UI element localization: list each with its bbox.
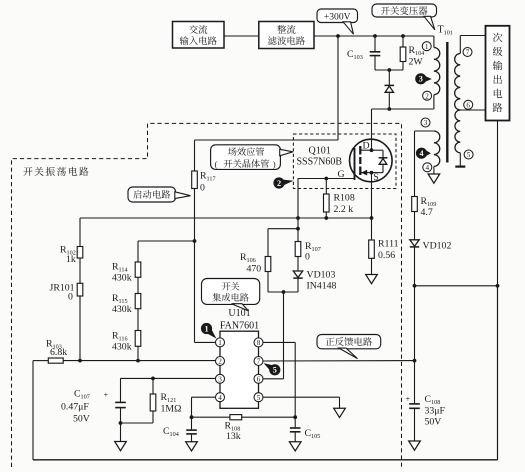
svg-text:5: 5 <box>467 151 471 159</box>
wire drain rail <box>372 108 434 110</box>
resistor R103 <box>48 358 63 363</box>
svg-text:R108: R108 <box>334 193 355 204</box>
AC input circuit block 交流输入电路 <box>173 22 225 49</box>
wire junction down to pin6 <box>283 292 285 379</box>
transformer T101 secondary winding 6-5 <box>455 110 460 153</box>
svg-text:0: 0 <box>200 183 205 194</box>
marker 2 black <box>283 180 293 186</box>
wire feedback bus left <box>33 360 48 362</box>
capacitor C107 <box>120 378 122 401</box>
svg-text:2: 2 <box>277 179 281 188</box>
wire R114-R115 <box>137 277 139 293</box>
wire vcc to output return <box>415 285 498 287</box>
resistor R109 <box>412 197 418 212</box>
node snubber diode bottom <box>387 107 391 111</box>
resistor R108 2.2k <box>325 179 327 195</box>
svg-text:430k: 430k <box>112 342 132 353</box>
callout 启动电路 <box>128 187 176 202</box>
resistor R121 <box>152 378 154 394</box>
svg-text:3: 3 <box>419 75 423 84</box>
svg-text:VD103: VD103 <box>307 270 336 281</box>
resistor R104 <box>402 36 404 47</box>
node R106 tap <box>296 227 300 231</box>
svg-text:4: 4 <box>419 149 423 158</box>
svg-text:1: 1 <box>218 339 222 347</box>
wire JR101 to feedback bus <box>79 296 81 361</box>
svg-text:2: 2 <box>218 358 222 366</box>
svg-text:0.56: 0.56 <box>378 250 395 261</box>
pin circle 4 <box>423 163 432 172</box>
svg-text:0.47μF: 0.47μF <box>61 402 89 413</box>
resistor R102 <box>77 247 83 259</box>
pin 1 of U101 <box>216 338 225 347</box>
svg-text:7: 7 <box>466 49 470 57</box>
svg-text:33μF: 33μF <box>425 406 446 417</box>
svg-text:4: 4 <box>218 394 222 402</box>
wire +300V rail <box>314 35 434 37</box>
pin circle 6 <box>464 100 473 109</box>
node C103 rail <box>373 34 377 38</box>
wire R106 tap <box>268 228 298 230</box>
resistor R106 <box>265 257 271 272</box>
svg-text:0: 0 <box>305 252 310 263</box>
rectifier filter block 整流滤波电路 <box>259 22 314 49</box>
node feedback right <box>413 359 417 363</box>
ground below R111 <box>371 258 373 274</box>
ground bar below pin5 <box>455 166 465 168</box>
wire VD102 node down to feedback <box>414 286 416 361</box>
resistor R111 <box>369 240 375 258</box>
node gate R108 <box>324 177 328 181</box>
node JR101/feedback <box>78 359 82 363</box>
svg-text:): ) <box>273 159 276 169</box>
svg-text:+: + <box>104 390 109 400</box>
wire pin4 left <box>192 396 216 398</box>
wire bottom ground bus <box>33 459 498 461</box>
pin 3 of U101 <box>216 374 225 383</box>
pin circle 3 <box>421 118 430 127</box>
wire pin6 right <box>263 378 284 380</box>
callout 开关变压器 <box>372 4 437 17</box>
capacitor C105 <box>294 417 296 427</box>
node junction to pin6 <box>282 290 286 294</box>
ground below C105 <box>289 442 301 451</box>
ground below C108 <box>409 441 421 450</box>
svg-text:1: 1 <box>425 43 429 51</box>
svg-text:8: 8 <box>257 339 261 347</box>
svg-text:6: 6 <box>257 375 261 383</box>
svg-text:1MΩ: 1MΩ <box>161 404 182 415</box>
node source bus <box>370 216 374 220</box>
callout 开关集成电路 <box>202 279 260 305</box>
svg-text:5: 5 <box>257 394 261 402</box>
capacitor C103 <box>374 36 376 51</box>
marker 3 black <box>425 76 432 82</box>
pin circle 1 <box>422 42 431 51</box>
wire AC block to rectifier block <box>224 35 259 37</box>
wire VD103/R106 junction <box>268 291 298 293</box>
mosfet Q101 gate bar <box>354 148 356 180</box>
pin circle 5 <box>464 150 473 159</box>
wire source bus <box>80 217 372 219</box>
mosfet Q101 channel segments <box>359 146 361 155</box>
svg-text:430k: 430k <box>112 273 132 284</box>
transformer T101 primary winding <box>434 48 440 95</box>
IC U101 body <box>220 331 259 408</box>
wire R106 down <box>267 272 269 293</box>
wire VD102 down <box>414 247 416 286</box>
pin 6 of U101 <box>254 374 263 383</box>
wire bus to output riser <box>497 286 499 460</box>
resistor R115 <box>135 294 141 309</box>
svg-text:4: 4 <box>426 164 430 172</box>
wire R115-R116 <box>137 309 139 331</box>
pin circle 7 <box>463 48 472 57</box>
mosfet Q101 body circle <box>350 139 393 182</box>
node bottom left <box>190 415 194 419</box>
transformer T101 aux winding 3-4 <box>434 131 440 166</box>
resistor JR101 <box>77 283 83 296</box>
transformer T101 secondary lead pin7 <box>460 35 485 37</box>
svg-text:1k: 1k <box>66 254 76 265</box>
svg-text:50V: 50V <box>73 414 90 425</box>
wire pin6 tap <box>460 109 485 111</box>
ground below C107 <box>115 442 127 451</box>
svg-text:2: 2 <box>425 92 429 100</box>
capacitor C108 <box>414 361 416 404</box>
svg-text:S: S <box>373 172 378 183</box>
diode snubber VD <box>388 70 390 85</box>
diode VD103 <box>293 271 302 277</box>
wire R116 to feedback bus <box>137 346 139 360</box>
svg-text:7: 7 <box>257 358 261 366</box>
svg-text:IN4148: IN4148 <box>307 281 337 292</box>
transformer T101 primary lead pin2 <box>433 95 435 109</box>
resistor R108 13k <box>230 415 242 420</box>
wire pin8 right <box>263 341 295 343</box>
node output return <box>496 284 500 288</box>
wire pin3 down <box>414 131 416 197</box>
wire R121 bottom <box>152 411 154 423</box>
pin 8 of U101 <box>254 338 263 347</box>
wire aux winding to ground <box>433 166 435 174</box>
wire output return down <box>497 121 499 460</box>
svg-text:1: 1 <box>204 324 208 333</box>
wire R109 to VD102 <box>414 212 416 240</box>
wire VD103 down <box>297 278 299 292</box>
svg-text:SSS7N60B: SSS7N60B <box>297 157 343 168</box>
mosfet Q101 source lead with arrow <box>360 172 371 174</box>
svg-text:5: 5 <box>273 366 277 375</box>
svg-text:+: + <box>406 394 411 404</box>
wire bottom RC <box>192 416 230 418</box>
svg-text:430k: 430k <box>112 304 132 315</box>
transformer T101 secondary winding 7-6 <box>455 54 461 111</box>
wire pin3 left <box>121 377 216 379</box>
svg-text:6: 6 <box>466 101 470 109</box>
svg-text:4.7: 4.7 <box>421 207 433 218</box>
secondary output circuit block 次级输出电路 <box>486 26 510 121</box>
marker 1 black <box>208 330 217 339</box>
svg-text:470: 470 <box>247 264 262 275</box>
wire bus corner to R102 <box>79 218 81 247</box>
wire startup from +300V rail <box>337 36 339 140</box>
svg-text:13k: 13k <box>226 431 241 442</box>
wire pin5 right <box>263 396 340 398</box>
pin circle 2 <box>423 91 432 100</box>
transformer core <box>446 42 448 163</box>
svg-text:0: 0 <box>68 292 73 303</box>
callout +300V <box>317 9 358 23</box>
diode VD102 <box>410 240 419 246</box>
marker 4 black <box>426 151 431 157</box>
svg-text:FAN7601: FAN7601 <box>220 321 259 332</box>
node R116/feedback <box>136 359 140 363</box>
callout 场效应管(开关晶体管) <box>211 145 281 170</box>
resistor R107 <box>295 242 301 257</box>
node gate branch bus <box>296 216 300 220</box>
svg-text:R111: R111 <box>378 239 399 250</box>
wire pin3 tap <box>415 130 434 132</box>
wire pin5 to ground bar <box>459 153 461 166</box>
transformer T101 primary lead pin1 <box>433 36 435 48</box>
node R104 rail <box>401 34 405 38</box>
svg-text:D: D <box>363 141 370 152</box>
node snubber diode top <box>387 68 391 72</box>
resistor R116 <box>135 331 141 347</box>
node VD102 output junction <box>413 284 417 288</box>
ground below C104 <box>186 442 198 451</box>
wire R107 to VD103 <box>297 257 299 271</box>
svg-text:6.8k: 6.8k <box>50 347 67 358</box>
wire feedback left riser <box>32 361 34 460</box>
node C107 R121 <box>119 421 123 425</box>
svg-text:2W: 2W <box>409 57 424 68</box>
capacitor C104 <box>191 417 193 429</box>
mosfet Q101 body diode <box>372 149 384 151</box>
mosfet Q101 drain lead <box>360 149 371 151</box>
wire R102-JR101 <box>79 258 81 283</box>
pin 5 of U101 <box>254 393 263 402</box>
pin 4 of U101 <box>216 393 225 402</box>
svg-text:2.2 k: 2.2 k <box>334 204 354 215</box>
resistor R114 <box>135 262 141 277</box>
pin 7 of U101 <box>254 357 263 366</box>
marker 5 black <box>264 363 273 370</box>
svg-text:Q101: Q101 <box>309 146 331 157</box>
node +300V to startup wire <box>336 34 340 38</box>
svg-text:3: 3 <box>218 375 222 383</box>
svg-text:3: 3 <box>424 119 428 127</box>
svg-text:(: ( <box>215 159 218 169</box>
pin 2 of U101 <box>216 357 225 366</box>
node R108 bus <box>324 216 328 220</box>
wire gate branch down <box>297 179 299 242</box>
wire feedback bus right pin7 <box>263 360 415 362</box>
svg-text:+300V: +300V <box>324 11 351 22</box>
svg-text:50V: 50V <box>425 417 442 428</box>
node startup/divider junction <box>193 239 197 243</box>
wire R117 to pin1 of U101 <box>194 189 196 343</box>
wire mosfet source down <box>371 182 373 240</box>
node bottom right <box>293 415 297 419</box>
dashed box switching oscillator circuit 开关振荡电路 <box>12 123 402 467</box>
ground below pin4 <box>428 174 440 183</box>
node pin3 R121 <box>151 377 155 381</box>
resistor R117 <box>192 171 198 189</box>
wire snubber bottom <box>375 69 403 71</box>
dashed box around Q101 <box>293 134 396 189</box>
wire gate <box>298 178 355 180</box>
wire divider top <box>138 240 195 242</box>
ground below pin5 wire <box>334 408 346 417</box>
svg-text:VD102: VD102 <box>423 241 452 252</box>
callout 正反馈电路 <box>317 335 381 349</box>
label 开关振荡电路 <box>23 167 32 176</box>
